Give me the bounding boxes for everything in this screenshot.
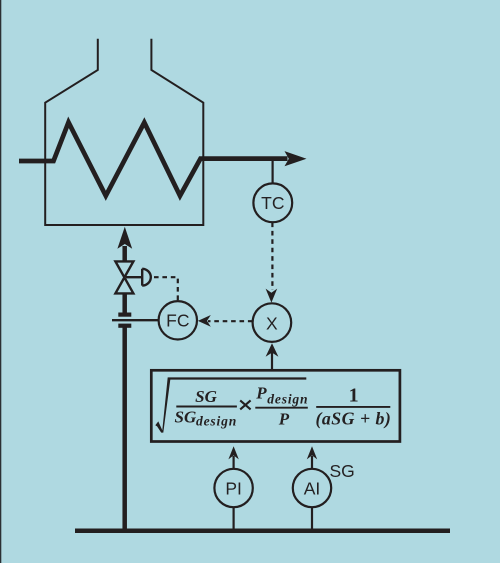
svg-text:PI: PI <box>225 478 242 498</box>
svg-text:P: P <box>278 409 290 428</box>
multiplier X <box>253 303 292 342</box>
fuel pipe segment above valve <box>122 246 127 262</box>
dashed signal TC to X <box>271 223 273 291</box>
svg-text:1: 1 <box>349 385 359 407</box>
control valve body <box>115 261 133 293</box>
svg-text:SG: SG <box>330 461 355 481</box>
instrument TC (temperature controller) <box>253 183 292 222</box>
svg-text:design: design <box>196 414 237 429</box>
instrument AI (analyzer indicator) <box>293 469 331 507</box>
fuel pipe segment below orifice <box>122 325 127 529</box>
svg-text:SG: SG <box>175 407 197 426</box>
fuel gas header (bottom line) <box>75 528 450 533</box>
instrument PI (pressure indicator) <box>214 469 252 507</box>
heating coil with process inlet line <box>19 122 288 196</box>
radical sign <box>155 377 306 432</box>
fuel arrow into furnace <box>117 227 132 249</box>
wire: AI down to header <box>311 507 313 529</box>
wire: PI up to equation box with arrowhead <box>233 456 235 469</box>
label SG at AI <box>330 461 355 481</box>
furnace F1 outline <box>45 39 203 225</box>
orifice flow element FE <box>118 313 131 317</box>
dashed signal X to FC with arrowhead <box>208 320 253 322</box>
svg-text:AI: AI <box>304 478 321 498</box>
fraction SG over SGdesign <box>195 387 217 406</box>
svg-text:SG: SG <box>195 387 217 406</box>
fraction Pdesign over P <box>255 383 267 402</box>
wire: AI up to equation box with arrowhead <box>311 456 313 469</box>
wire: outlet line to TC stem <box>272 160 274 184</box>
valve actuator (diaphragm D) <box>126 276 142 278</box>
solid signal equation box to X <box>271 351 273 369</box>
wire: PI down to header <box>233 507 235 529</box>
fraction 1 over (aSG+b) <box>349 385 359 407</box>
svg-text:P: P <box>255 383 267 402</box>
wire: orifice tap to FC <box>112 319 159 321</box>
equation box <box>151 370 400 441</box>
svg-text:design: design <box>267 391 308 406</box>
dashed signal FC to valve actuator <box>154 277 178 300</box>
fuel pipe segment valve to orifice <box>122 293 127 315</box>
left page edge line <box>0 0 1 563</box>
svg-text:TC: TC <box>261 193 284 213</box>
svg-text:(aSG + b): (aSG + b) <box>315 408 391 429</box>
times sign <box>240 400 250 409</box>
svg-text:FC: FC <box>166 311 189 331</box>
instrument FC (flow controller) <box>159 301 197 339</box>
process outlet arrowhead <box>285 151 307 166</box>
svg-text:X: X <box>266 314 278 334</box>
